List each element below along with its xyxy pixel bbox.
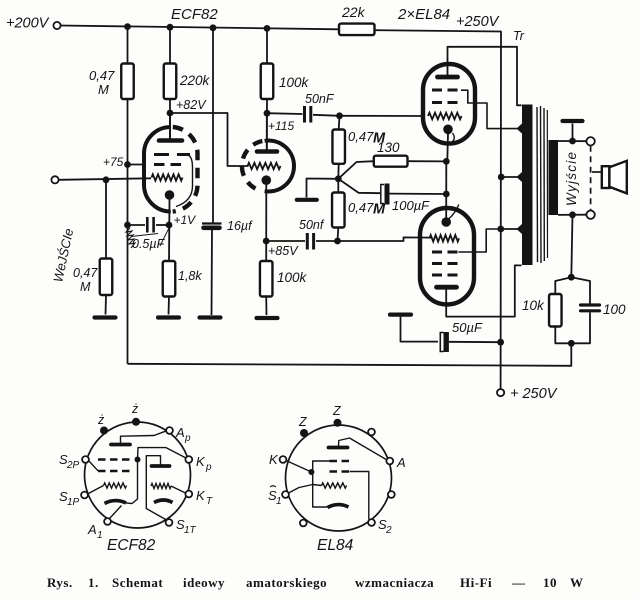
terminal +200V input <box>6 16 61 32</box>
node feedback bottom <box>568 340 575 347</box>
node rail-D <box>264 25 271 32</box>
label Wyjscie <box>564 152 579 206</box>
wire grid wire upper EL84 <box>340 115 425 117</box>
resistor 100k upper <box>261 64 310 100</box>
node B+ filter <box>497 339 504 346</box>
wire cathode common <box>445 161 447 217</box>
anode bar V1a <box>159 138 182 143</box>
wire secondary bottom <box>558 214 586 216</box>
svg-text:M: M <box>80 280 91 294</box>
resistor 100k lower <box>260 261 308 297</box>
socket ECF82 pentode g3 dashes <box>98 458 134 460</box>
socket ECF82 KT lead <box>171 486 186 493</box>
node feedback top <box>568 274 575 281</box>
svg-text:16µf: 16µf <box>227 219 253 233</box>
capacitor 50nF upper <box>305 92 335 123</box>
label +250V top <box>456 14 500 30</box>
svg-text:100: 100 <box>603 302 626 317</box>
capacitor 16µf <box>202 219 253 233</box>
wire V3 screen to tap <box>459 229 501 252</box>
wire +85V to 50nF lower <box>266 240 305 242</box>
node 0.5µF left <box>124 222 131 229</box>
wire V2 screen to tap <box>461 90 520 128</box>
heater pin z1 ECF82 <box>97 413 108 435</box>
svg-text:10k: 10k <box>522 298 545 313</box>
socket ECF82 suppressor node <box>135 457 141 463</box>
ground bias <box>297 198 317 202</box>
resistor 1,8k <box>163 261 203 297</box>
svg-text:Hi-Fi: Hi-Fi <box>460 575 492 590</box>
screen dashes V2 row2 <box>432 101 461 104</box>
resistor 22k <box>339 4 375 35</box>
terminal output bottom <box>586 211 594 219</box>
cathode dot V3 <box>441 217 451 227</box>
wire +82V to triode grid <box>170 113 249 166</box>
capacitor 50nf lower <box>299 218 325 250</box>
wire 220k to anode <box>169 99 171 140</box>
wire 100k to triode anode <box>266 99 268 151</box>
pin S1 <box>268 486 289 507</box>
capacitor 100µF <box>338 179 430 213</box>
socket EL84 S2 run <box>350 472 369 520</box>
terminal +250V bottom <box>497 386 558 402</box>
svg-text:+85V: +85V <box>268 244 299 258</box>
svg-text:W: W <box>570 575 584 590</box>
tube V2 EL84 upper envelope <box>423 64 475 144</box>
svg-text:T: T <box>206 496 213 507</box>
svg-text:ż: ż <box>97 413 105 427</box>
control grid zigzag V1a <box>152 174 183 180</box>
wire 10k bottom <box>555 327 571 344</box>
label ECF82 top <box>171 6 218 23</box>
svg-text:EL84: EL84 <box>317 537 354 554</box>
dashed speaker link <box>591 146 602 211</box>
suppressor internal lead V1a <box>176 156 193 207</box>
svg-text:ECF82: ECF82 <box>107 537 156 554</box>
grid zigzag V3 <box>430 235 460 242</box>
pin S2P <box>59 452 89 471</box>
svg-text:1T: 1T <box>184 525 197 536</box>
node 0.5µF cathode <box>166 222 173 229</box>
svg-text:+ 250V: + 250V <box>510 386 558 402</box>
socket ECF82 triode anode <box>146 456 169 520</box>
wire 0.5µF left <box>128 224 146 226</box>
screen dashes V3 row1 <box>432 251 460 254</box>
wire grid leak to ground <box>105 295 108 315</box>
label +1V <box>174 213 197 227</box>
svg-text:+200V: +200V <box>6 16 50 32</box>
svg-text:K: K <box>196 488 206 503</box>
socket EL84 circle <box>286 425 392 531</box>
socket EL84 S1 lead <box>289 485 322 494</box>
ground 1,8k <box>158 315 179 319</box>
pin A1 <box>87 518 111 541</box>
resistor 0,47M divider <box>89 64 134 100</box>
wire +115 to 50nF <box>267 112 303 115</box>
svg-text:0,47: 0,47 <box>89 68 115 83</box>
ground input <box>95 315 116 319</box>
label Tr <box>513 29 525 43</box>
socket EL84 anode <box>329 438 388 460</box>
tube V3 EL84 lower envelope <box>420 208 474 305</box>
node bias mid <box>335 175 342 182</box>
svg-text:M: M <box>373 202 386 218</box>
svg-text:M: M <box>98 82 109 97</box>
cathode flourish V2 <box>450 133 454 144</box>
node B+ center tap <box>498 174 522 181</box>
node grid leak <box>103 176 110 183</box>
wire grid wire lower EL84 <box>338 237 432 241</box>
cathode flourish V3 <box>449 205 459 219</box>
svg-text:+82V: +82V <box>176 98 207 112</box>
socket ECF82 A1 lead <box>110 506 122 519</box>
svg-text:2: 2 <box>385 525 392 536</box>
socket ECF82 pentode g2 dashes <box>98 470 131 472</box>
svg-text:p: p <box>205 462 212 473</box>
svg-text:A: A <box>87 522 97 537</box>
svg-text:100µF: 100µF <box>392 198 430 213</box>
wire V1a anode lead <box>169 115 171 138</box>
pin EL84 right <box>388 491 395 498</box>
speaker <box>602 161 627 194</box>
wire rail-B down <box>169 27 171 63</box>
terminal input <box>51 176 58 183</box>
resistor 0,47M upper bias <box>332 116 386 164</box>
svg-text:50nf: 50nf <box>299 218 325 232</box>
svg-text:K: K <box>196 454 206 469</box>
svg-text:50nF: 50nF <box>305 92 335 106</box>
svg-text:0,47: 0,47 <box>73 266 98 280</box>
pin Ap <box>166 425 191 444</box>
socket ECF82 S1P lead <box>88 486 104 495</box>
svg-text:amatorskiego: amatorskiego <box>246 575 327 590</box>
screen dashes V3 row3 <box>432 274 459 277</box>
svg-text:ECF82: ECF82 <box>171 6 218 23</box>
anode bar V2 <box>438 75 458 80</box>
node cathode-130 <box>443 158 450 165</box>
pin S2 <box>368 517 392 536</box>
screen dashes V2 row1 <box>432 89 462 92</box>
svg-text:0,47: 0,47 <box>348 129 374 144</box>
node rail-B <box>167 24 174 31</box>
socket ECF82 S2P lead <box>89 461 99 471</box>
node secondary top <box>569 138 576 145</box>
caption <box>47 575 584 590</box>
pin Kp <box>185 454 212 473</box>
svg-text:Z: Z <box>298 415 307 429</box>
socket ECF82 pentode zigzag <box>104 483 127 488</box>
terminal output top <box>586 137 594 145</box>
wire V2 anode to transformer <box>448 47 522 106</box>
label ECF82 socket <box>107 537 156 554</box>
svg-text:100k: 100k <box>277 270 308 285</box>
heater pin z1 EL84 <box>298 415 308 437</box>
wire V2 cathode lead <box>446 134 449 162</box>
socket EL84 zigzag <box>322 483 347 488</box>
node grid upper EL84 <box>336 112 343 119</box>
svg-text:ż: ż <box>131 402 139 416</box>
scribble mark <box>126 228 135 248</box>
heater pin z2 ECF82 <box>131 402 140 426</box>
resistor 220k <box>164 64 211 100</box>
transformer primary winding <box>517 105 533 266</box>
svg-text:1,8k: 1,8k <box>178 269 202 283</box>
node grid lower EL84 <box>334 238 341 245</box>
pin K <box>269 452 286 467</box>
wire rail-D down <box>266 28 268 63</box>
socket ECF82 pentode cathode arc <box>105 501 127 504</box>
svg-text:220k: 220k <box>179 73 211 88</box>
capacitor 50µF <box>440 320 483 352</box>
leader 0.5µF <box>131 226 170 246</box>
wire bias upper to node <box>337 164 339 179</box>
pin EL84 bottomleft <box>300 520 307 527</box>
pin KT <box>185 488 213 507</box>
grid zigzag V2 <box>428 113 462 120</box>
socket ECF82 circle <box>85 422 191 528</box>
socket EL84 K node <box>308 469 314 475</box>
transformer core laminations <box>537 106 548 263</box>
svg-text:130: 130 <box>377 140 400 155</box>
node cathode-100µF <box>443 191 450 198</box>
node B+ lower tap <box>497 226 521 233</box>
screen grid dashes V1a row1 <box>154 153 190 156</box>
socket ECF82 triode zigzag <box>151 483 171 488</box>
svg-text:2P: 2P <box>66 460 80 471</box>
wire bias node to ground stem <box>307 179 339 198</box>
ground 100k lower <box>257 316 278 320</box>
socket EL84 g dashes2 <box>330 470 350 472</box>
wire V1b anode lead <box>266 115 268 150</box>
wire feedback rail <box>128 343 572 366</box>
wire secondary ground stem <box>572 124 574 142</box>
wire divider mid column <box>127 99 129 364</box>
resistor 10k <box>522 277 571 326</box>
wire 50µF to B+ <box>449 341 501 343</box>
svg-text:—: — <box>511 575 526 590</box>
pin EL84 topright <box>368 429 375 436</box>
cathode dot V1a <box>165 190 175 200</box>
capacitor 0.5µF <box>132 217 166 251</box>
svg-text:Rys.: Rys. <box>47 575 73 590</box>
anode bar V1b <box>257 149 277 154</box>
node rail-A <box>124 23 131 30</box>
cathode dot V1b <box>262 175 272 185</box>
wire 50nf to grid node lower <box>316 240 338 242</box>
svg-text:A: A <box>175 425 185 440</box>
node rail-C <box>210 24 217 31</box>
svg-text:+1V: +1V <box>174 213 197 227</box>
svg-text:+115: +115 <box>268 119 294 133</box>
wire input to grid <box>59 178 151 180</box>
label WEJSCIE <box>50 227 76 284</box>
resistor 130 <box>338 140 407 179</box>
svg-text:0,47: 0,47 <box>348 200 374 215</box>
svg-text:10: 10 <box>543 575 557 590</box>
wire rail-C down <box>212 28 214 224</box>
wire 130 to cathode node <box>408 160 447 162</box>
socket EL84 cathode arc <box>328 505 349 508</box>
wire V1a cathode lead <box>168 199 171 261</box>
socket EL84 box <box>313 461 330 507</box>
wire 16µf to ground <box>211 228 214 315</box>
wire ground to 50µF <box>401 317 439 342</box>
node secondary bottom <box>569 211 576 218</box>
svg-text:Schemat: Schemat <box>112 575 163 590</box>
wire 1,8k to ground <box>168 297 171 315</box>
grid zigzag V1b <box>248 163 281 169</box>
svg-text:ideowy: ideowy <box>183 575 225 590</box>
svg-text:p: p <box>184 433 191 444</box>
svg-text:1: 1 <box>276 496 282 507</box>
wire secondary top <box>558 140 587 142</box>
resistor 0,47M lower bias <box>332 179 386 228</box>
heater pin z2 EL84 <box>332 404 342 427</box>
pin S1T <box>166 517 197 536</box>
wire secondary to feedback <box>571 215 572 277</box>
label EL84 socket <box>317 537 354 554</box>
node +82V <box>167 98 208 116</box>
ground secondary <box>563 119 583 123</box>
svg-text:+250V: +250V <box>456 14 500 30</box>
svg-text:1.: 1. <box>88 575 99 590</box>
node +75 <box>103 155 131 169</box>
capacitor 100 <box>571 277 626 343</box>
screen dashes V3 row2 <box>432 262 459 265</box>
socket ECF82 pentode anode <box>111 431 167 445</box>
wire 22k to B+ corner <box>375 30 502 389</box>
svg-text:50µF: 50µF <box>452 320 483 335</box>
svg-text:Wyjście: Wyjście <box>564 152 579 206</box>
svg-text:wzmacniacza: wzmacniacza <box>355 575 434 590</box>
wire screen feed <box>128 164 147 166</box>
tube V1a ECF82 pentode envelope <box>144 127 198 212</box>
ground 50µF <box>390 313 411 317</box>
svg-text:Z: Z <box>332 404 341 418</box>
pin A <box>386 455 405 470</box>
tube V1b ECF82 triode envelope <box>242 141 294 192</box>
svg-text:+75: +75 <box>103 155 124 169</box>
anode bar V3 <box>437 285 457 290</box>
wire V3 anode to transformer <box>446 265 521 316</box>
svg-text:22k: 22k <box>341 4 366 20</box>
svg-text:100k: 100k <box>279 75 310 90</box>
label 2×EL84 <box>397 6 450 23</box>
svg-text:1P: 1P <box>67 497 80 508</box>
wire rail-A down <box>127 27 129 64</box>
svg-text:K: K <box>269 452 279 467</box>
ground 16µf <box>200 315 221 319</box>
screen grid dashes V1a row2 <box>154 163 181 166</box>
socket ECF82 triode cathode arc <box>154 500 173 503</box>
wire 100µF to cathode node <box>390 193 447 195</box>
socket EL84 g dashes1 <box>330 460 350 462</box>
wire 50nF to grid node <box>313 115 340 116</box>
wire bias lower to grid wire <box>337 228 340 242</box>
svg-text:1: 1 <box>97 530 103 541</box>
wire V1b cathode lead <box>265 184 267 261</box>
svg-text:A: A <box>396 455 406 470</box>
node +115 <box>264 110 295 133</box>
resistor 0,47M grid leak <box>73 180 112 295</box>
svg-text:Tr: Tr <box>513 29 525 43</box>
transformer secondary winding <box>549 140 559 215</box>
cathode dot V2 <box>443 125 453 135</box>
wire +200V rail <box>61 26 339 30</box>
svg-text:2×EL84: 2×EL84 <box>397 6 450 23</box>
wire 0.5µF right <box>156 224 169 226</box>
node +85V <box>263 238 299 258</box>
socket EL84 K lead <box>286 461 311 473</box>
socket ECF82 Kp run <box>126 448 186 504</box>
pin S1P <box>59 489 88 508</box>
wire 100k lower to ground <box>265 297 267 316</box>
